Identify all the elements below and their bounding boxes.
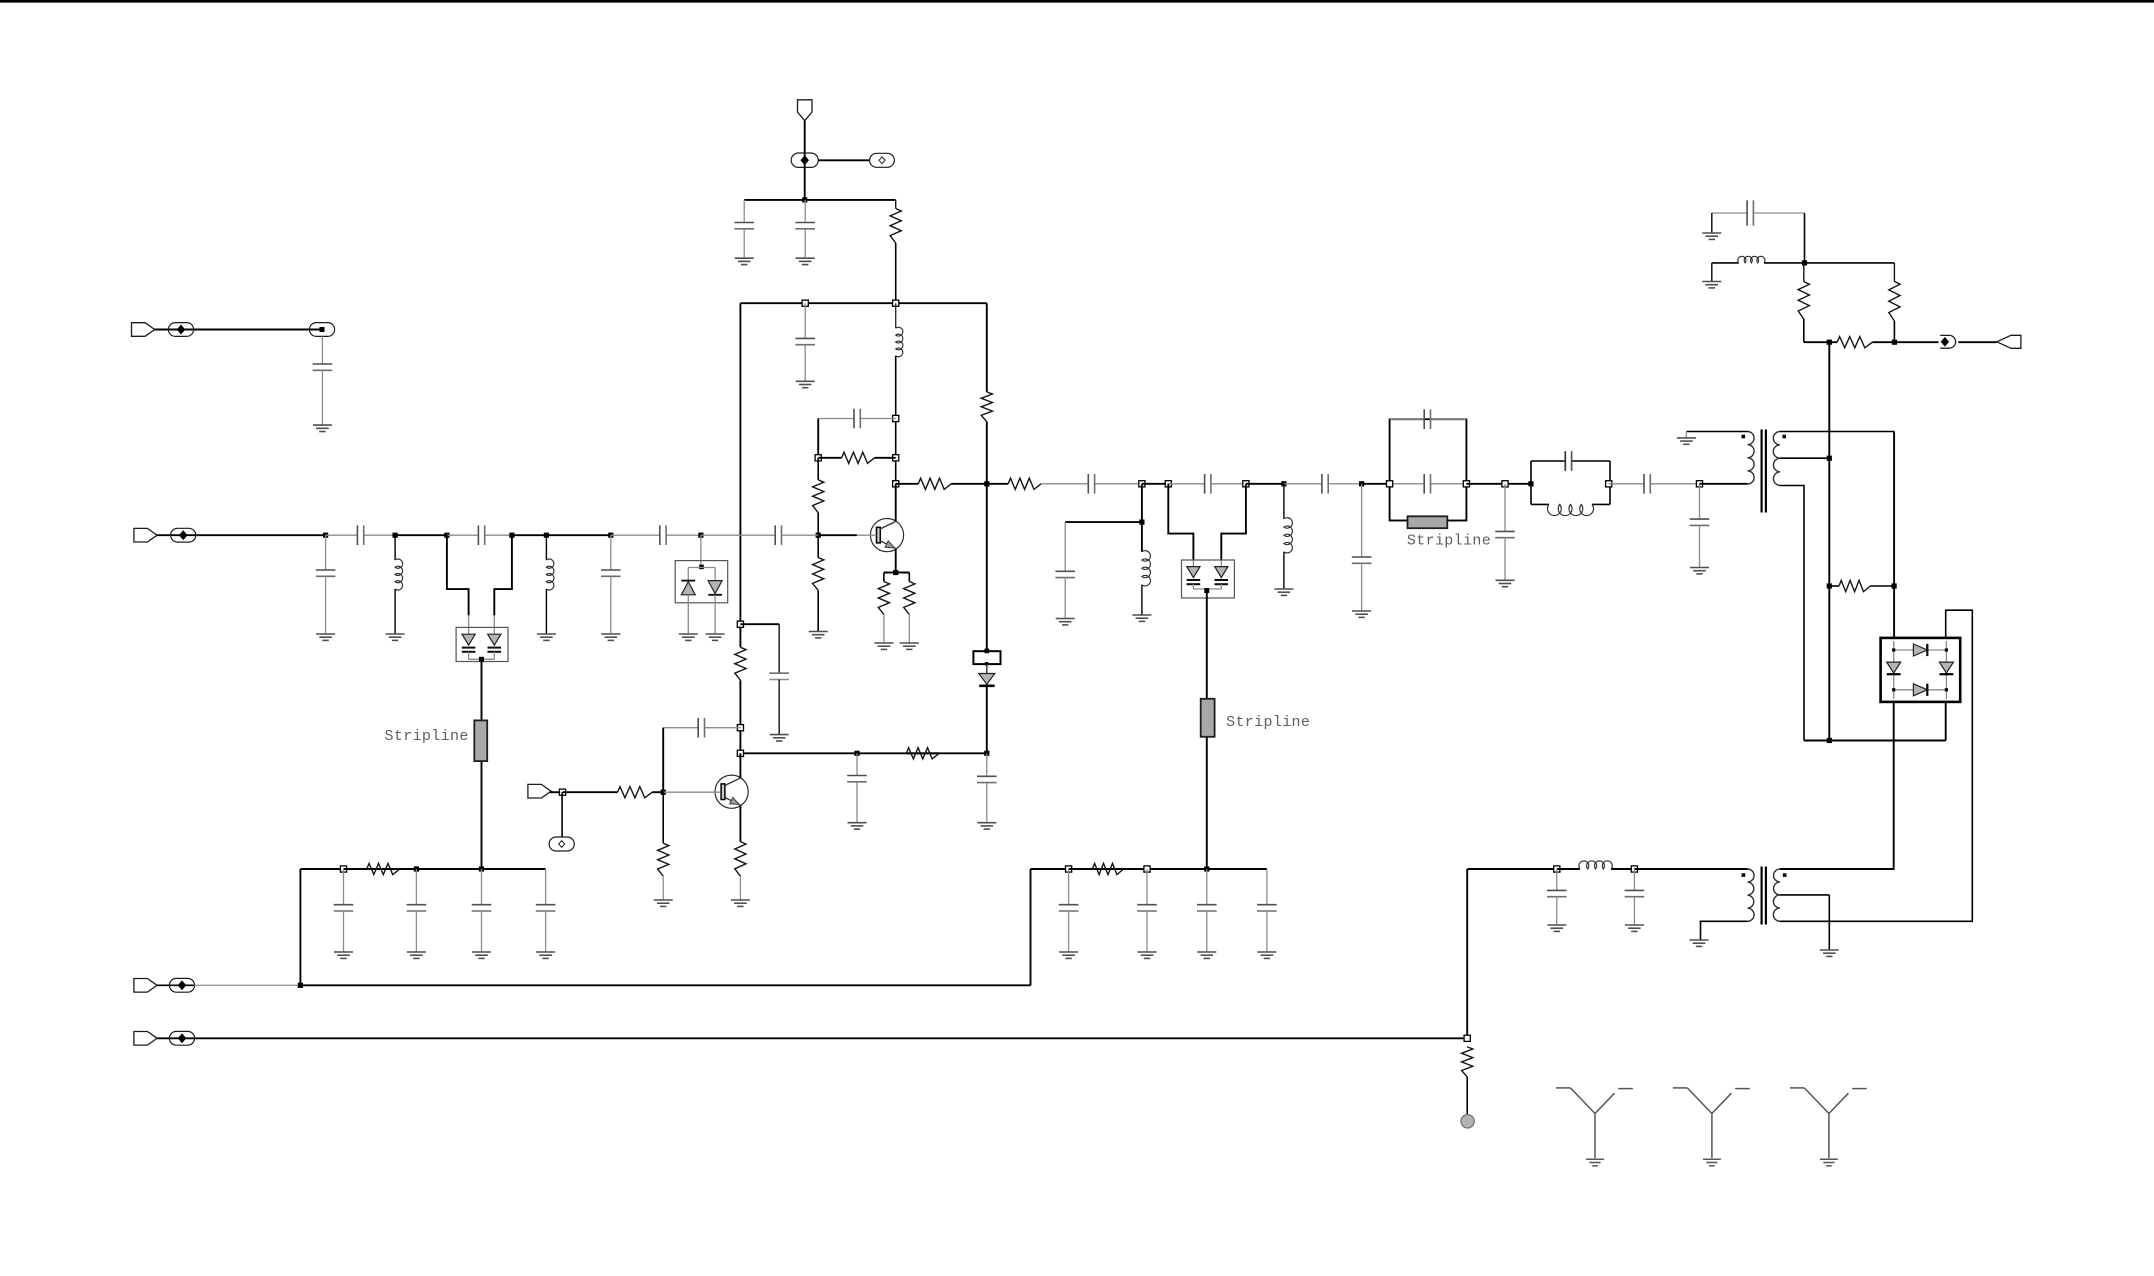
svg-text:Stripline: Stripline [1407,533,1491,550]
svg-text:Stripline: Stripline [385,728,469,745]
svg-text:Stripline: Stripline [1226,714,1310,731]
